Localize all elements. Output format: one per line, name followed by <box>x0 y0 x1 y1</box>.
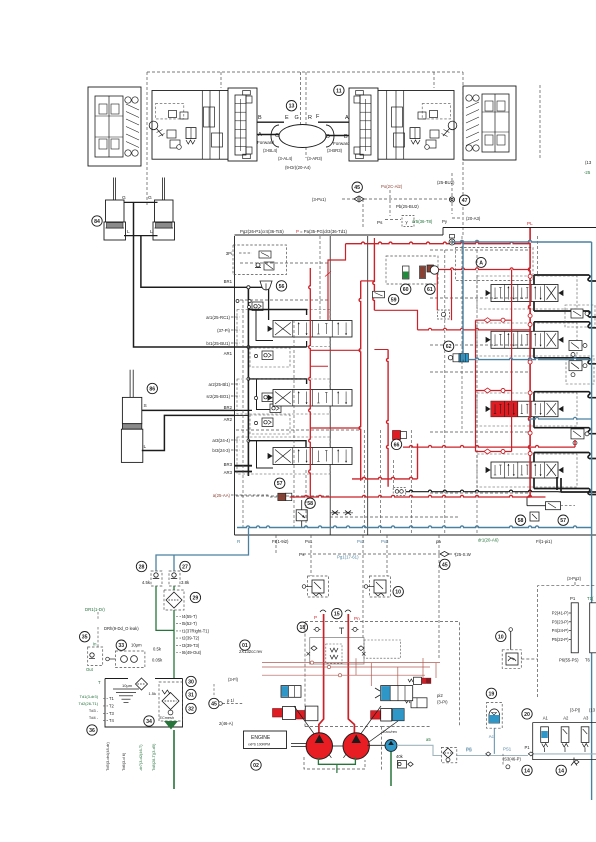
green return from 28 <box>156 586 174 630</box>
red feed right spools <box>511 270 513 452</box>
svg-text:PS1: PS1 <box>503 747 512 752</box>
wire right travel F-A <box>318 121 349 123</box>
accumulator <box>487 703 503 729</box>
remote control valve left <box>308 576 329 597</box>
svg-text:br1(25-BU1): br1(25-BU1) <box>206 341 230 346</box>
right servo regulator <box>381 686 413 701</box>
pilot filter PS <box>441 747 456 762</box>
svg-text:T1: T1 <box>109 696 115 701</box>
svg-text:10: 10 <box>395 590 401 596</box>
item 13 <box>286 101 296 111</box>
item 32 <box>186 703 196 713</box>
svg-text:Ps: Ps <box>377 220 383 225</box>
svg-text:br3(24-3): br3(24-3) <box>212 448 230 453</box>
pilot wire (3-Px1) <box>342 198 354 200</box>
svg-text:Td8(28-T|(3-d5): Td8(28-T|(3-d5) <box>151 743 156 771</box>
svg-text:14: 14 <box>558 768 564 774</box>
svg-text:= Pa(35-PG)dr3(36-Td1): = Pa(35-PG)dr3(36-Td1) <box>300 229 347 234</box>
item 28 <box>136 561 146 571</box>
svg-text:13: 13 <box>289 104 295 110</box>
wire cyl84 G manifold <box>124 201 158 203</box>
gear pump 3 <box>385 740 397 752</box>
item 86 <box>147 383 157 393</box>
spool valve L2 (swing) <box>237 379 330 414</box>
wire cyl84 to AR1 <box>134 202 235 347</box>
left travel motor M1 <box>88 87 141 166</box>
svg-text:t5(52-T): t5(52-T) <box>182 621 197 626</box>
pilot valve between L1 L2 <box>262 351 273 360</box>
svg-text:02: 02 <box>253 763 259 769</box>
svg-text:A: A <box>258 132 262 138</box>
item 14 a <box>522 765 532 775</box>
item 56 <box>276 281 286 291</box>
teal mid line <box>469 358 592 360</box>
item 29 <box>190 592 200 602</box>
pilot manifold dashed box <box>538 586 596 697</box>
svg-text:-dr7(3-d2(46-T): -dr7(3-d2(46-T) <box>138 744 143 771</box>
red long horizontal to right reliefs <box>403 446 575 448</box>
item 35 <box>80 632 90 642</box>
right travel brake valve block <box>378 91 454 160</box>
svg-text:3.8k: 3.8k <box>181 580 190 585</box>
item 47 <box>459 195 469 205</box>
svg-text:Td3 -: Td3 - <box>89 708 99 713</box>
regulator solid box <box>310 638 364 664</box>
svg-text:P1: P1 <box>570 596 576 601</box>
svg-text:28: 28 <box>139 564 145 570</box>
svg-text:ENGINE: ENGINE <box>251 735 271 741</box>
solenoid 60 (green) <box>403 266 410 279</box>
item 36 <box>87 725 97 735</box>
svg-text:P4(24-P): P4(24-P) <box>552 628 569 633</box>
svg-text:Pn: Pn <box>354 616 360 621</box>
item 59 <box>388 294 398 304</box>
breather top of manifold <box>449 239 455 245</box>
svg-text:66: 66 <box>394 442 400 448</box>
svg-text:10: 10 <box>498 634 504 640</box>
svg-text:Fr(1-9i2): Fr(1-9i2) <box>272 539 289 544</box>
main pump 1 <box>306 733 332 759</box>
svg-text:AR2: AR2 <box>224 417 233 422</box>
thin red pilot mesh <box>262 662 440 664</box>
svg-text:-25: -25 <box>584 170 591 175</box>
svg-text:(3-P)|: (3-P)| <box>570 708 580 713</box>
main pump 2 <box>343 733 369 759</box>
pump group dashed box <box>305 622 459 727</box>
svg-text:BR3: BR3 <box>224 462 233 467</box>
svg-text:(3-Pg2): (3-Pg2) <box>567 576 582 581</box>
return filter 30/31/32 <box>159 682 183 721</box>
hydraulic tank <box>105 679 183 728</box>
svg-text:T6: T6 <box>585 658 591 663</box>
breather valve 35 <box>88 647 103 666</box>
anti-drift valve between R1R2 <box>565 305 595 327</box>
svg-text:(3-Pi): (3-Pi) <box>437 700 448 705</box>
internal section line 1 <box>329 236 331 535</box>
svg-text:a(25-AA): a(25-AA) <box>213 493 231 498</box>
blade cylinder 86 <box>129 370 131 424</box>
main relief valve bottom <box>546 502 561 510</box>
swivel joint 13 <box>279 125 326 148</box>
svg-text:L: L <box>150 229 153 235</box>
pilot valve 3 <box>262 418 273 427</box>
item 14 b <box>556 765 566 775</box>
svg-text:(13: (13 <box>585 160 592 165</box>
svg-text:29: 29 <box>193 595 199 601</box>
svg-text:T: T <box>98 680 101 685</box>
drive shaft <box>291 743 306 745</box>
svg-text:(9-Dr)(20-A4): (9-Dr)(20-A4) <box>285 165 311 170</box>
svg-text:C: C <box>275 133 279 139</box>
item 10 mid <box>393 586 403 596</box>
svg-text:t6(49-Out): t6(49-Out) <box>182 650 202 655</box>
svg-text:62: 62 <box>446 344 452 350</box>
item A <box>476 257 486 267</box>
reducing valve 58 right <box>530 512 539 521</box>
spool valve R2 (boom2) <box>477 323 577 356</box>
svg-text:0.05k: 0.05k <box>152 658 163 663</box>
relief valve 56 <box>260 281 272 290</box>
svg-text:P: P <box>296 229 299 234</box>
main control valve housing <box>234 236 236 535</box>
left servo regulator <box>281 686 301 698</box>
svg-text:PL: PL <box>527 221 533 226</box>
orifice symbol 45 <box>354 196 364 202</box>
svg-text:Po(2C-Al2): Po(2C-Al2) <box>381 184 403 189</box>
right travel motor M2 <box>463 86 516 160</box>
reducing valve 58 left <box>296 510 307 521</box>
wire cyl86 L to AR2 <box>142 415 235 450</box>
item 01 <box>240 640 250 650</box>
heavy tank frames right spools <box>534 275 596 281</box>
svg-text:T1(: T1( <box>587 596 594 601</box>
item 61 <box>425 284 435 294</box>
svg-text:Td4 -: Td4 - <box>89 715 99 720</box>
red port junctions <box>528 274 532 278</box>
svg-text:G: G <box>295 115 299 121</box>
svg-text:B: B <box>258 115 262 121</box>
port BR3 stub <box>235 465 253 467</box>
pi2 compensator top <box>408 679 413 682</box>
svg-text:P3(23-P): P3(23-P) <box>552 619 569 624</box>
internal section line 2 <box>367 236 369 535</box>
svg-text:AR3: AR3 <box>224 470 233 475</box>
svg-text:3Pi: 3Pi <box>226 251 232 256</box>
svg-text:(25-BU2): (25-BU2) <box>437 180 455 185</box>
green gear pump drain <box>390 752 392 787</box>
item 19 <box>486 688 496 698</box>
svg-text:40k: 40k <box>396 754 404 759</box>
svg-text:45: 45 <box>354 185 360 191</box>
shuttle valve pair above spool1 <box>252 302 263 311</box>
svg-text:33: 33 <box>118 643 124 649</box>
svg-text:ECmesh: ECmesh <box>160 716 175 720</box>
teal R drop to oil cooler <box>156 528 249 572</box>
port AR3 stub <box>235 471 253 473</box>
svg-text:P: P <box>314 615 317 620</box>
item 31 <box>186 689 196 699</box>
svg-text:a5: a5 <box>426 737 431 742</box>
svg-text:58: 58 <box>307 501 313 507</box>
svg-text:Out: Out <box>86 667 94 672</box>
svg-text:32: 32 <box>188 706 194 712</box>
svg-text:PS: PS <box>466 747 472 752</box>
svg-text:61: 61 <box>427 287 433 293</box>
svg-text:|S3(46-P): |S3(46-P) <box>503 757 521 762</box>
red horizontal upper right <box>437 268 530 270</box>
port relief valves right <box>569 341 582 351</box>
wire left travel B-E <box>257 121 284 123</box>
svg-text:(3-AL4): (3-AL4) <box>278 156 293 161</box>
svg-text:Pg1(17-61): Pg1(17-61) <box>337 555 359 560</box>
svg-text:Px3: Px3 <box>381 539 389 544</box>
teal manifold bottom R line <box>237 526 592 528</box>
svg-text:Fl(1-pi1): Fl(1-pi1) <box>536 539 553 544</box>
svg-text:A2: A2 <box>563 715 569 720</box>
oil cooler 29 <box>164 590 184 610</box>
svg-text:1.5k: 1.5k <box>148 691 156 696</box>
svg-text:A3: A3 <box>583 715 589 720</box>
svg-text:Td5(3-dr4(48-dr): Td5(3-dr4(48-dr) <box>105 742 110 771</box>
svg-text:(3-BR3): (3-BR3) <box>327 148 343 153</box>
item 62 <box>443 341 453 351</box>
suction strainer 34 <box>164 721 178 730</box>
svg-text:45: 45 <box>442 562 448 568</box>
shuttle Y <box>571 758 577 766</box>
svg-text:15: 15 <box>334 612 340 618</box>
svg-text:sr2(25-BO1): sr2(25-BO1) <box>206 394 230 399</box>
svg-text:(37-Pi): (37-Pi) <box>217 328 230 333</box>
svg-text:Td6(3-d 6): Td6(3-d 6) <box>121 752 126 771</box>
svg-text:A: A <box>345 115 349 121</box>
svg-text:R: R <box>308 115 312 121</box>
svg-text:P6(55-PS): P6(55-PS) <box>559 658 579 663</box>
wire right travel D-B <box>327 135 349 137</box>
svg-text:10cc/rev: 10cc/rev <box>382 729 397 734</box>
boom cylinder pair 84 <box>113 178 115 224</box>
item 15 <box>332 608 342 618</box>
svg-text:57: 57 <box>277 481 283 487</box>
red center trunk P2 <box>359 281 361 481</box>
pressure switch 66b <box>393 488 406 496</box>
svg-text:Forward: Forward <box>257 140 274 145</box>
item 10 bottom-right <box>496 631 506 641</box>
item 02 <box>251 760 261 770</box>
svg-text:G: G <box>122 195 126 201</box>
green return main <box>173 586 175 590</box>
engine <box>244 731 287 749</box>
svg-text:xxPS 100RPM: xxPS 100RPM <box>248 743 270 747</box>
svg-text:T2: T2 <box>109 703 115 708</box>
breather symbol 47 <box>449 197 454 202</box>
solenoid 61 (brown) + pump <box>420 266 426 279</box>
item 57 left <box>275 478 285 488</box>
svg-text:P2(41-P): P2(41-P) <box>552 611 569 616</box>
pilot shutoff valve <box>509 628 513 632</box>
port block P1 <box>571 603 578 653</box>
black wire to Fl <box>406 490 558 492</box>
svg-text:45: 45 <box>211 701 217 707</box>
swash links <box>294 706 331 758</box>
teal drop to 62 <box>462 242 464 354</box>
pilot module top (3Pi) <box>233 245 287 275</box>
red top-left corner into manifold <box>373 238 375 244</box>
svg-text:(3-BL4): (3-BL4) <box>263 148 278 153</box>
pi2 lower piston <box>405 700 410 703</box>
wire left travel A-C <box>257 134 279 136</box>
pilot valve 2 <box>262 393 273 402</box>
svg-text:(13: (13 <box>589 708 596 713</box>
svg-text:A1: A1 <box>543 715 549 720</box>
svg-text:t4(55-T): t4(55-T) <box>182 614 197 619</box>
svg-text:2X132cc:rev: 2X132cc:rev <box>239 649 263 654</box>
svg-text:Py: Py <box>442 219 448 224</box>
dashed box right of breather <box>456 248 534 281</box>
red vertical mid <box>387 350 389 487</box>
svg-text:11: 11 <box>336 88 342 94</box>
svg-text:47: 47 <box>462 198 468 204</box>
black double drop right spools <box>556 477 558 490</box>
svg-text:A: A <box>479 260 483 266</box>
check 45 bottom symbol <box>440 551 449 556</box>
svg-text:35: 35 <box>82 635 88 641</box>
gray pilot supply line <box>397 745 441 755</box>
right travel spool valve <box>349 88 378 161</box>
svg-text:T3: T3 <box>109 711 115 716</box>
left trunk wires <box>247 287 249 476</box>
svg-text:AR1: AR1 <box>224 351 233 356</box>
svg-text:10μm: 10μm <box>122 683 133 688</box>
svg-text:T4: T4 <box>109 718 115 723</box>
item 27 <box>180 561 190 571</box>
left travel spool valve <box>228 88 257 161</box>
svg-text:dr1(20-A6): dr1(20-A6) <box>478 538 499 543</box>
svg-text:ar1(25-RC1): ar1(25-RC1) <box>206 315 230 320</box>
spool valve L1 (boom) <box>237 310 330 347</box>
item 57 right <box>558 515 568 525</box>
valve 59 <box>373 291 385 298</box>
pilot stubs left labels <box>231 316 240 318</box>
regulator fittings row <box>315 627 319 631</box>
servo pistons <box>273 709 283 718</box>
item 45 mid <box>440 559 450 569</box>
svg-text:Pb(25-BU2): Pb(25-BU2) <box>396 204 419 209</box>
item 45 top <box>352 182 362 192</box>
svg-text:P5(22-P): P5(22-P) <box>552 637 569 642</box>
svg-text:DRh(9-Dd_O leak): DRh(9-Dd_O leak) <box>104 626 139 631</box>
item 33 <box>116 640 126 650</box>
svg-text:60: 60 <box>403 287 409 293</box>
pilot dashed network inside manifold <box>242 300 244 530</box>
pilot wire Pb vertical <box>389 190 391 216</box>
left travel brake/counterbalance valve block <box>152 91 228 160</box>
svg-text:t1(37Right-T1): t1(37Right-T1) <box>182 628 210 633</box>
teal return line top right <box>452 240 592 242</box>
dashed case drain outline <box>304 757 365 769</box>
wire cyl86 S to BR2 <box>142 409 235 411</box>
remote control valve right <box>370 576 391 597</box>
green drain under pumps <box>318 757 355 764</box>
red solenoid 66 <box>393 431 401 440</box>
teal lower line <box>530 417 592 419</box>
svg-text:27: 27 <box>182 564 188 570</box>
svg-text:dr5(36-T8): dr5(36-T8) <box>412 219 433 224</box>
svg-text:56: 56 <box>279 284 285 290</box>
svg-text:Td2(26-T1): Td2(26-T1) <box>79 701 99 706</box>
svg-text:19: 19 <box>489 691 495 697</box>
svg-text:BR2: BR2 <box>224 405 233 410</box>
svg-text:pi2: pi2 <box>437 693 443 698</box>
svg-text:S: S <box>144 403 147 409</box>
item 45 bottom <box>209 698 219 708</box>
pilot module dashed box 59-61 <box>386 256 438 284</box>
red branch to 66 <box>374 310 417 330</box>
svg-text:20: 20 <box>524 712 530 718</box>
red trunk Pl right <box>529 228 531 473</box>
svg-text:DR1(1-Dr): DR1(1-Dr) <box>85 607 105 612</box>
item 58 left <box>305 498 315 508</box>
svg-text:L: L <box>127 229 130 235</box>
wire cyl84 to BR1 <box>124 235 158 237</box>
svg-text:59: 59 <box>391 297 397 303</box>
svg-text:14: 14 <box>524 768 530 774</box>
svg-text:84: 84 <box>94 219 100 225</box>
svg-text:(25-S.W: (25-S.W <box>455 552 472 557</box>
svg-text:58: 58 <box>518 518 524 524</box>
svg-text:34: 34 <box>146 719 152 725</box>
svg-text:p 1l: p 1l <box>227 698 234 703</box>
item 58 right <box>515 515 525 525</box>
item 62 valve <box>448 356 452 360</box>
dashed pilot drops below manifold <box>275 535 277 554</box>
item 34 <box>144 716 154 726</box>
svg-text:(3-Px1): (3-Px1) <box>312 197 327 202</box>
svg-text:(20-A3): (20-A3) <box>466 216 481 221</box>
check orifices row <box>330 512 340 514</box>
check valve 28 4.5k <box>151 571 162 586</box>
svg-text:Ps: Ps <box>299 552 305 557</box>
item 11 <box>334 85 344 95</box>
check valve 27 3.8k <box>169 571 180 586</box>
svg-text:E: E <box>285 115 289 121</box>
svg-text:30: 30 <box>188 679 194 685</box>
small check mid <box>438 310 450 319</box>
svg-text:10μm: 10μm <box>131 643 142 648</box>
item 20 <box>522 709 532 719</box>
svg-text:L: L <box>144 444 147 450</box>
spool valve R3 (bucket, highlighted) <box>477 393 577 426</box>
pilot filter unit 33 <box>115 651 144 668</box>
svg-text:4.5k: 4.5k <box>142 580 151 585</box>
item 60 <box>401 284 411 294</box>
svg-text:P1: P1 <box>525 745 531 750</box>
solenoid valve 57 (brown) <box>278 493 286 500</box>
red pump delivery Pn <box>348 614 354 733</box>
svg-text:Pg2(26-P1(cr4(36-Tc5): Pg2(26-P1(cr4(36-Tc5) <box>240 229 284 234</box>
spool valve R4 <box>477 454 577 487</box>
spool valve R1 (arm) <box>477 276 577 309</box>
svg-text:ar2(25-Bl1): ar2(25-Bl1) <box>209 382 231 387</box>
svg-text:t3(39-T3): t3(39-T3) <box>182 643 200 648</box>
pilot wire 25-BU2 vertical <box>451 173 453 196</box>
svg-text:(3-Fl): (3-Fl) <box>228 677 239 682</box>
svg-text:2(46-A): 2(46-A) <box>219 721 234 726</box>
svg-text:ar3(24-4): ar3(24-4) <box>212 438 230 443</box>
svg-text:0.5k: 0.5k <box>153 647 162 652</box>
wire P1 supply <box>528 753 596 755</box>
svg-text:86: 86 <box>149 386 155 392</box>
item 66 <box>391 439 401 449</box>
